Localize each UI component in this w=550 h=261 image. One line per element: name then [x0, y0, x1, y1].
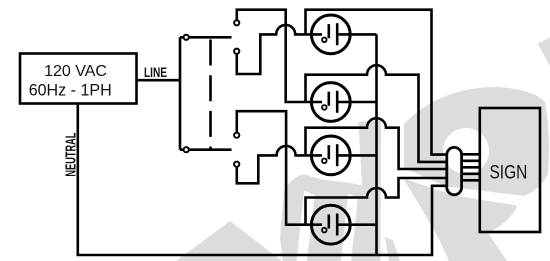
S2 throw3 contact — [234, 133, 239, 138]
wire lamp4 tee to sign bundle (hop over bus) — [306, 178, 448, 225]
wire net B: throw2 down-right-up to lamp1 input (hop over net A) — [237, 25, 322, 74]
cable gland oval — [447, 147, 462, 194]
wire LINE — [137, 79, 181, 82]
wire pole1 stub — [180, 36, 184, 39]
S1 pole contact — [184, 35, 189, 40]
mechanical link dashed — [209, 40, 212, 150]
switch S1 blade — [190, 36, 232, 39]
wire net A: throw1 up-over-down to lamp2 input — [237, 10, 322, 102]
switch contacts — [184, 20, 240, 167]
svg-text:60Hz - 1PH: 60Hz - 1PH — [29, 80, 112, 99]
S2 pole contact — [184, 147, 189, 152]
svg-text:NEUTRAL: NEUTRAL — [64, 133, 80, 177]
flasher unit 1 — [311, 15, 376, 54]
wire NEUTRAL: box bottom, bottom run, up to bundle — [78, 104, 447, 256]
source box 120VAC — [20, 54, 137, 104]
watermark grey shapes — [176, 38, 550, 261]
sign box — [480, 108, 540, 232]
wire return bus — [375, 34, 378, 255]
svg-text:SIGN: SIGN — [490, 162, 528, 183]
wire line tee vertical — [179, 37, 182, 149]
flasher unit 3 — [311, 136, 376, 175]
wire lamp2 tee to sign bundle (hop over bus) — [306, 65, 448, 162]
wire net D: throw4 down-right-up to lamp3 input (hop over net C) — [237, 146, 322, 183]
S1 throw1 contact — [234, 20, 239, 25]
flasher unit 2 — [311, 83, 376, 122]
S2 throw4 contact — [234, 162, 239, 167]
switch S2 blade — [190, 148, 232, 151]
wire pole2 stub — [180, 148, 184, 151]
flasher unit 4 — [311, 205, 376, 244]
svg-text:LINE: LINE — [144, 65, 167, 80]
wire lamp3 tee to sign bundle (hop over bus) — [306, 118, 448, 169]
wire bundle fan-out to sign — [462, 153, 480, 156]
S1 throw2 contact — [234, 49, 239, 54]
svg-text:120 VAC: 120 VAC — [44, 63, 107, 80]
wire lamp1 tee to sign bundle — [306, 10, 448, 155]
wire net C: throw3 up-over-down to lamp4 input — [237, 111, 322, 225]
